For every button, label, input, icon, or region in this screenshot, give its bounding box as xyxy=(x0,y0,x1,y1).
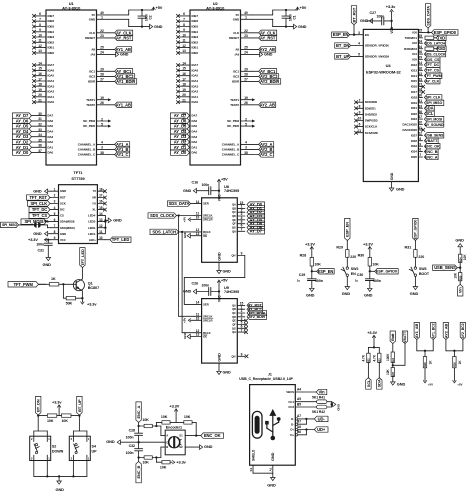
svg-text:AY2_BC2: AY2_BC2 xyxy=(461,323,465,338)
no-connect xyxy=(244,327,247,330)
svg-text:C28: C28 xyxy=(129,429,135,433)
label AY1_AB (vertical) xyxy=(414,323,419,351)
svg-text:LED3-: LED3- xyxy=(88,220,96,224)
wire xyxy=(306,419,314,424)
svg-text:7: 7 xyxy=(359,98,361,102)
wire IO0 node xyxy=(423,31,432,33)
label SPI_CLK xyxy=(424,95,442,100)
svg-text:SWP/SD3: SWP/SD3 xyxy=(365,119,378,123)
svg-text:32: 32 xyxy=(38,123,42,127)
junction xyxy=(137,456,139,458)
svg-text:+5V: +5V xyxy=(457,383,462,387)
svg-text:D/C: D/C xyxy=(60,208,65,212)
resistor R28 10K xyxy=(300,254,322,279)
svg-text:GND: GND xyxy=(33,231,42,236)
junction xyxy=(137,425,139,427)
svg-text:10: 10 xyxy=(38,33,42,37)
svg-text:10: 10 xyxy=(99,236,103,240)
svg-text:17: 17 xyxy=(182,77,186,81)
svg-text:S1: S1 xyxy=(249,468,253,472)
IC U2 AY-3-8910 xyxy=(190,1,241,165)
resistor R23 xyxy=(425,47,434,50)
svg-text:A1: A1 xyxy=(268,467,272,471)
svg-text:6: 6 xyxy=(359,123,361,127)
svg-text:10K: 10K xyxy=(161,415,168,419)
svg-text:13: 13 xyxy=(38,49,42,53)
svg-text:SHD/SD2: SHD/SD2 xyxy=(365,113,378,117)
label AY_D0 xyxy=(247,202,265,207)
wire xyxy=(34,416,48,431)
svg-text:IOA2: IOA2 xyxy=(192,90,199,94)
svg-text:30: 30 xyxy=(38,112,42,116)
svg-text:AY_D7: AY_D7 xyxy=(250,229,263,234)
svg-text:7: 7 xyxy=(39,18,41,22)
svg-text:1K: 1K xyxy=(51,277,56,281)
svg-text:TFT_DC: TFT_DC xyxy=(32,207,47,212)
no-connect xyxy=(244,331,247,334)
svg-text:GND: GND xyxy=(204,444,213,449)
svg-text:IOB1: IOB1 xyxy=(192,46,199,50)
svg-text:IOA5: IOA5 xyxy=(48,74,55,78)
svg-text:GND: GND xyxy=(89,17,95,21)
label ESP_EN (vertical) xyxy=(345,218,350,249)
svg-text:USB_C_Receptacle_USB2.0_14P: USB_C_Receptacle_USB2.0_14P xyxy=(239,377,293,381)
label TFT_DC xyxy=(29,207,51,212)
svg-text:BC807: BC807 xyxy=(88,286,99,290)
svg-text:C29: C29 xyxy=(299,273,305,277)
svg-text:BC1: BC1 xyxy=(89,69,95,73)
svg-text:U4: U4 xyxy=(386,63,392,68)
svg-text:QF: QF xyxy=(232,222,236,226)
svg-text:IO27: IO27 xyxy=(411,133,417,137)
svg-text:23: 23 xyxy=(100,34,104,38)
svg-text:QA: QA xyxy=(232,303,236,307)
svg-text:14: 14 xyxy=(99,212,103,216)
svg-text:10: 10 xyxy=(358,117,362,121)
svg-text:VBATT: VBATT xyxy=(425,139,438,143)
svg-text:11: 11 xyxy=(38,39,42,43)
svg-text:AY1_AB: AY1_AB xyxy=(414,323,419,338)
svg-text:IO13: IO13 xyxy=(411,68,417,72)
svg-text:14: 14 xyxy=(196,200,200,204)
resistor 10K (B pullup) xyxy=(156,458,172,470)
power +5V (SRCLR pull) xyxy=(182,317,194,323)
svg-text:GND: GND xyxy=(397,381,406,386)
resistor R30 10K xyxy=(358,254,380,279)
svg-text:GND: GND xyxy=(60,189,66,193)
ground (OE tie) xyxy=(183,331,194,339)
svg-text:7: 7 xyxy=(54,224,56,228)
svg-text:+5V: +5V xyxy=(156,5,163,10)
label TXD xyxy=(434,35,446,40)
svg-text:28: 28 xyxy=(100,73,104,77)
power +3.3v xyxy=(52,400,62,416)
svg-text:SPI_MISO: SPI_MISO xyxy=(2,223,17,227)
svg-text:Vin: Vin xyxy=(458,287,463,293)
svg-text:A8: A8 xyxy=(235,47,239,51)
label ESP_EN xyxy=(312,269,334,274)
svg-text:ENC_B: ENC_B xyxy=(136,465,141,478)
svg-text:7: 7 xyxy=(241,228,243,232)
svg-text:IOA1: IOA1 xyxy=(192,95,199,99)
ground xyxy=(185,444,212,449)
svg-text:1: 1 xyxy=(101,16,103,20)
label AY_BC1 xyxy=(252,69,277,74)
power +3.3V xyxy=(363,241,373,257)
label ENC_B xyxy=(424,149,438,154)
label AY_D5 xyxy=(247,221,265,226)
IC TFT1 ST7789 display connector xyxy=(59,170,98,244)
svg-text:SDA(MOSI): SDA(MOSI) xyxy=(60,220,75,224)
svg-text:IOA3: IOA3 xyxy=(48,84,55,88)
J1 pin D+ A6 xyxy=(290,425,306,432)
U2 right-side pins xyxy=(222,11,252,156)
TFT1 left pins xyxy=(51,187,75,241)
resistor R 1K xyxy=(39,277,59,286)
svg-text:9: 9 xyxy=(54,236,56,240)
svg-text:CLK: CLK xyxy=(233,31,240,35)
svg-text:33: 33 xyxy=(38,128,42,132)
ground xyxy=(56,476,65,492)
svg-text:5: 5 xyxy=(245,122,247,126)
power +3.3V xyxy=(305,241,315,257)
label AY1_B xyxy=(108,147,130,152)
svg-text:CHANNEL_B: CHANNEL_B xyxy=(78,148,95,152)
svg-text:SDS_CS: SDS_CS xyxy=(425,58,440,62)
svg-text:34: 34 xyxy=(418,45,422,49)
svg-text:TFT1: TFT1 xyxy=(74,170,84,175)
svg-text:IO17: IO17 xyxy=(411,90,417,94)
svg-text:CC2: CC2 xyxy=(288,405,294,409)
junction xyxy=(353,34,355,36)
label AY1_BC2 xyxy=(108,74,135,79)
svg-text:11: 11 xyxy=(182,39,186,43)
svg-text:AY_CLK: AY_CLK xyxy=(425,80,439,84)
svg-text:25: 25 xyxy=(418,29,422,33)
svg-text:50K: 50K xyxy=(66,302,73,306)
svg-text:IOB3: IOB3 xyxy=(192,35,199,39)
label BT_UP xyxy=(335,54,356,59)
svg-text:BC2: BC2 xyxy=(233,75,239,79)
svg-text:8: 8 xyxy=(419,137,421,141)
svg-text:AY_D7: AY_D7 xyxy=(16,113,29,118)
svg-text:5K1 R42: 5K1 R42 xyxy=(312,410,325,414)
svg-text:GND: GND xyxy=(342,291,351,296)
svg-text:ESP_EN: ESP_EN xyxy=(333,32,349,37)
label AY_BC1 xyxy=(108,69,133,74)
svg-text:S1: S1 xyxy=(179,434,183,438)
svg-text:AY_D5: AY_D5 xyxy=(16,124,29,129)
svg-text:EN: EN xyxy=(351,272,356,276)
svg-text:DA6: DA6 xyxy=(48,119,54,123)
svg-text:NC_PIN5: NC_PIN5 xyxy=(227,124,239,128)
wire xyxy=(414,276,416,286)
svg-text:DA2: DA2 xyxy=(48,140,54,144)
svg-text:A8: A8 xyxy=(91,47,95,51)
svg-text:GND: GND xyxy=(364,293,373,298)
svg-text:GND: GND xyxy=(33,188,42,193)
no-connect IO16 xyxy=(422,85,425,88)
TFT1 right pins xyxy=(88,187,105,241)
svg-text:35: 35 xyxy=(418,34,422,38)
label AY1_C xyxy=(108,152,130,157)
svg-text:C32: C32 xyxy=(129,444,135,448)
svg-text:DA1: DA1 xyxy=(192,145,198,149)
label AY_SOUND xyxy=(424,122,444,127)
wire GND rail U2 xyxy=(252,19,292,26)
svg-text:DA3: DA3 xyxy=(48,135,54,139)
svg-text:R25: R25 xyxy=(391,371,395,376)
ground xyxy=(217,270,231,274)
label BT_UP (vertical) xyxy=(77,396,82,415)
junction xyxy=(305,428,307,430)
svg-text:IOB1: IOB1 xyxy=(48,46,55,50)
svg-text:100n: 100n xyxy=(126,436,134,440)
wire xyxy=(156,447,165,457)
U4 left control pins xyxy=(356,31,389,59)
label SPI_MOSI xyxy=(21,219,51,224)
label SDS_DATA xyxy=(168,201,195,206)
power +3.3V xyxy=(28,237,51,242)
svg-text:10K: 10K xyxy=(160,466,167,470)
svg-text:SENSOR_VN/IO39: SENSOR_VN/IO39 xyxy=(365,54,390,58)
svg-text:QC: QC xyxy=(232,311,236,315)
rotary encoder Encoder1 xyxy=(165,425,185,454)
U4 flash pins (no-connect) xyxy=(354,98,378,135)
wire SDS_LATCH to U9 RCLK xyxy=(182,232,194,333)
svg-text:CHANNEL_A: CHANNEL_A xyxy=(222,143,240,147)
svg-text:TFT_RST: TFT_RST xyxy=(29,195,47,200)
svg-text:IO33: IO33 xyxy=(411,144,417,148)
svg-text:BT_UP: BT_UP xyxy=(336,54,349,59)
svg-text:BC1: BC1 xyxy=(233,69,239,73)
resistor 10K xyxy=(139,456,157,465)
U9 output pins xyxy=(232,302,245,359)
svg-text:DA2: DA2 xyxy=(192,140,198,144)
label AY_D6 xyxy=(247,225,265,230)
svg-text:7: 7 xyxy=(419,153,421,157)
svg-text:2: 2 xyxy=(54,194,56,198)
svg-text:DA1: DA1 xyxy=(48,145,54,149)
junction xyxy=(459,267,461,269)
label SDS_DATA (vertical) xyxy=(425,4,430,33)
svg-text:SDS_DATA: SDS_DATA xyxy=(425,6,430,26)
svg-text:40: 40 xyxy=(244,11,248,15)
svg-text:13: 13 xyxy=(99,218,103,222)
power +5V xyxy=(152,5,163,10)
svg-text:IOB3: IOB3 xyxy=(48,35,55,39)
label TFT_RST xyxy=(27,195,52,200)
svg-text:100n: 100n xyxy=(315,279,323,283)
ground xyxy=(252,52,273,57)
svg-text:10K: 10K xyxy=(184,415,191,419)
svg-text:27: 27 xyxy=(244,78,248,82)
ground xyxy=(148,24,163,29)
label TFT_CS xyxy=(424,68,440,73)
svg-text:/RESET: /RESET xyxy=(85,36,95,40)
capacitor C16 100n xyxy=(192,181,220,195)
svg-text:AY1_BC2: AY1_BC2 xyxy=(431,323,435,338)
svg-text:+3.3v: +3.3v xyxy=(87,302,97,307)
svg-text:14: 14 xyxy=(38,61,42,65)
ground xyxy=(43,258,52,267)
svg-text:IOB2: IOB2 xyxy=(192,40,199,44)
svg-text:21: 21 xyxy=(38,98,42,102)
svg-text:VCC: VCC xyxy=(60,238,66,242)
junction xyxy=(37,414,81,416)
svg-text:GND: GND xyxy=(223,270,232,274)
svg-text:D+: D+ xyxy=(290,433,294,437)
svg-text:220: 220 xyxy=(350,255,356,259)
svg-text:USB_SENS: USB_SENS xyxy=(434,265,456,270)
junction xyxy=(155,425,157,427)
svg-text:R30: R30 xyxy=(358,254,365,258)
svg-text:30: 30 xyxy=(418,94,422,98)
label AY1_BDIR xyxy=(108,79,137,84)
svg-text:R28: R28 xyxy=(300,254,307,258)
label SPI_CLK xyxy=(28,201,52,206)
svg-text:IOB5: IOB5 xyxy=(192,25,199,29)
svg-text:BT_UP: BT_UP xyxy=(77,399,82,412)
svg-text:3: 3 xyxy=(245,146,247,150)
svg-text:100n: 100n xyxy=(377,15,385,19)
U1 right-side pins xyxy=(78,11,108,156)
svg-text:GND: GND xyxy=(154,24,163,29)
svg-text:SER: SER xyxy=(203,202,209,206)
connector J1 USB_C_Receptacle_USB2.0_14P xyxy=(239,373,295,466)
svg-text:13: 13 xyxy=(182,49,186,53)
svg-text:10: 10 xyxy=(196,216,200,220)
power +3.3v xyxy=(172,459,186,464)
label AY2_AB xyxy=(252,47,276,52)
svg-text:26: 26 xyxy=(418,50,422,54)
svg-text:AY1_AB: AY1_AB xyxy=(116,102,131,107)
svg-text:17: 17 xyxy=(38,77,42,81)
svg-text:6: 6 xyxy=(39,12,41,16)
wire GND xyxy=(218,363,220,371)
svg-text:QB: QB xyxy=(232,206,236,210)
svg-text:TXD: TXD xyxy=(437,35,445,40)
ground xyxy=(342,287,351,296)
label VBATT (vertical) xyxy=(393,331,408,365)
resistor 10K xyxy=(454,272,463,284)
label SPI_MISO xyxy=(1,222,34,227)
svg-text:+3.3V: +3.3V xyxy=(363,241,373,246)
svg-text:10K: 10K xyxy=(62,419,69,423)
svg-text:/RESET: /RESET xyxy=(229,36,239,40)
svg-text:Vin: Vin xyxy=(318,390,325,395)
no-connect NC_PIN2 xyxy=(252,120,255,123)
label AY_BC1 xyxy=(247,307,263,312)
svg-text:5: 5 xyxy=(54,212,56,216)
svg-text:GND: GND xyxy=(60,232,66,236)
no-connect TEST1 xyxy=(108,98,111,101)
svg-text:23: 23 xyxy=(418,77,422,81)
junction xyxy=(47,239,49,241)
label SDS_CLOCK xyxy=(424,51,446,56)
svg-text:AY-3-8910: AY-3-8910 xyxy=(62,5,81,10)
svg-text:18: 18 xyxy=(38,83,42,87)
svg-text:IOB7: IOB7 xyxy=(192,14,199,18)
svg-text:8: 8 xyxy=(54,230,56,234)
svg-text:AY_RST: AY_RST xyxy=(116,35,132,40)
svg-text:12: 12 xyxy=(99,224,103,228)
svg-text:GND: GND xyxy=(360,18,369,23)
svg-text:DAC1/IO25: DAC1/IO25 xyxy=(402,123,417,127)
svg-text:19: 19 xyxy=(182,88,186,92)
svg-text:SDS_CLOCK: SDS_CLOCK xyxy=(425,52,446,56)
svg-text:B5: B5 xyxy=(297,402,301,406)
svg-text:Batt: Batt xyxy=(390,333,395,341)
svg-text:IOA6: IOA6 xyxy=(192,68,199,72)
svg-text:25: 25 xyxy=(100,46,104,50)
svg-text:BDIR: BDIR xyxy=(232,80,240,84)
label ESP_GPIO0 (vertical) xyxy=(413,218,418,249)
svg-text:S2: S2 xyxy=(179,445,183,449)
resistor 100K xyxy=(386,352,395,368)
svg-text:OE: OE xyxy=(203,234,207,238)
svg-text:AY_D4: AY_D4 xyxy=(16,129,29,134)
junction xyxy=(218,290,220,292)
junction xyxy=(330,403,332,405)
svg-text:16: 16 xyxy=(182,72,186,76)
U2 data bus pins DA7-DA0 with labels AY_D7-AY_D0 xyxy=(171,112,198,155)
svg-text:IO21: IO21 xyxy=(411,106,417,110)
svg-text:IOB0: IOB0 xyxy=(48,51,55,55)
resistor 10K xyxy=(386,368,395,382)
svg-text:IO0: IO0 xyxy=(412,30,417,34)
svg-text:DA4: DA4 xyxy=(48,130,54,134)
label BT_DN (vertical) xyxy=(36,396,41,415)
svg-text:14: 14 xyxy=(182,61,186,65)
label AY2_BDIR xyxy=(252,79,281,84)
svg-text:ESP_GPIO0: ESP_GPIO0 xyxy=(434,30,457,35)
svg-text:DA0: DA0 xyxy=(48,151,54,155)
svg-text:10K: 10K xyxy=(372,263,379,267)
svg-text:GND: GND xyxy=(298,24,307,29)
svg-text:GND: GND xyxy=(390,172,394,180)
svg-text:R35: R35 xyxy=(458,275,462,280)
ground xyxy=(108,218,122,223)
capacitor C31 100n xyxy=(36,240,52,258)
resistor R29 220 xyxy=(336,246,356,267)
svg-text:LED+: LED+ xyxy=(89,238,96,242)
svg-text:D-: D- xyxy=(291,417,294,421)
no-connect NC_PIN5 xyxy=(108,125,111,128)
svg-text:GND: GND xyxy=(306,293,315,298)
power +3.3V xyxy=(169,404,179,423)
svg-text:GND: GND xyxy=(396,187,405,192)
svg-text:10K: 10K xyxy=(47,419,54,423)
svg-text:ESP_EN: ESP_EN xyxy=(318,269,334,274)
svg-text:1: 1 xyxy=(245,16,247,20)
svg-text:IO32: IO32 xyxy=(411,139,417,143)
svg-text:QC: QC xyxy=(232,210,236,214)
label AY2_B xyxy=(252,147,274,152)
svg-text:IOA7: IOA7 xyxy=(192,63,199,67)
svg-text:SPI_MOSI: SPI_MOSI xyxy=(426,117,442,121)
junction xyxy=(141,9,143,28)
svg-text:UP: UP xyxy=(92,450,98,454)
svg-text:10: 10 xyxy=(196,317,200,321)
no-connect DAC2/IO26 xyxy=(422,128,425,131)
svg-text:+3.3V: +3.3V xyxy=(367,330,377,335)
ground (OE tie) xyxy=(183,231,194,239)
svg-text:IOB2: IOB2 xyxy=(48,40,55,44)
no-connect xyxy=(244,319,247,322)
svg-text:IOA0: IOA0 xyxy=(192,100,199,104)
svg-text:C31: C31 xyxy=(38,248,44,252)
